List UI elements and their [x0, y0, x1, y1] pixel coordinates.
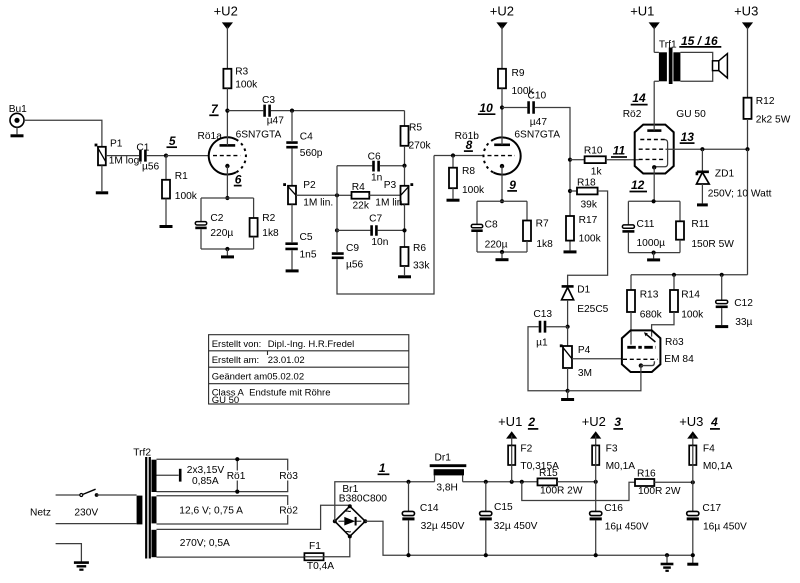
wire screen pin 13	[666, 148, 748, 150]
svg-text:E25C5: E25C5	[577, 304, 608, 315]
capacitor C2	[195, 198, 233, 249]
capacitor C16	[590, 503, 649, 555]
svg-text:100k: 100k	[235, 80, 258, 91]
cathode network rail U2 top	[628, 200, 680, 202]
svg-text:680k: 680k	[640, 310, 663, 321]
wire R3 to node 7	[226, 88, 228, 110]
pin 13 label	[680, 130, 695, 144]
mains switch	[56, 489, 137, 497]
svg-text:15 / 16: 15 / 16	[681, 34, 718, 48]
title block	[209, 335, 409, 406]
wire Bu1 to P1	[24, 120, 102, 147]
svg-text:11: 11	[613, 144, 626, 158]
svg-text:8: 8	[466, 138, 473, 152]
svg-text:C10: C10	[528, 90, 547, 101]
wire C4 to P2	[291, 148, 293, 185]
svg-text:µ47: µ47	[530, 117, 548, 128]
svg-text:Rö2: Rö2	[623, 109, 642, 120]
node R8 tap	[451, 153, 455, 157]
svg-text:33k: 33k	[413, 261, 430, 272]
diode D1	[562, 284, 609, 326]
potentiometer P4	[560, 327, 622, 391]
node C15 top	[484, 480, 488, 484]
svg-text:GU 50: GU 50	[212, 395, 239, 406]
capacitor C3	[262, 95, 284, 127]
wire F2 to rail	[511, 465, 513, 482]
svg-text:M0,1A: M0,1A	[703, 461, 733, 472]
transformer Trf2 core	[133, 448, 151, 559]
capacitor C7	[337, 214, 405, 248]
svg-text:13: 13	[681, 130, 695, 144]
capacitor C4	[286, 111, 322, 159]
svg-text:+U2: +U2	[214, 4, 238, 19]
svg-text:Trf1: Trf1	[659, 40, 677, 51]
svg-text:220µ: 220µ	[210, 228, 233, 239]
wire cathode box bottom rail (U1b)	[477, 251, 527, 253]
resistor R6	[401, 243, 431, 272]
svg-text:33µ: 33µ	[735, 317, 752, 328]
node 13 right	[745, 147, 749, 151]
svg-text:3M: 3M	[578, 368, 592, 379]
ground (ZD1)	[697, 203, 708, 206]
svg-text:T0,4A: T0,4A	[307, 561, 334, 572]
svg-text:32µ 450V: 32µ 450V	[494, 521, 538, 532]
svg-text:C3: C3	[262, 95, 275, 106]
EM84 supply rail	[631, 274, 748, 276]
ground (C12)	[715, 325, 728, 328]
node R18 tap	[568, 189, 572, 193]
svg-text:R17: R17	[579, 215, 598, 226]
svg-text:100k: 100k	[175, 191, 198, 202]
wire cathode pin 12	[653, 167, 655, 201]
wire plate pin 14	[653, 81, 655, 130]
svg-text:R11: R11	[691, 219, 709, 230]
node P2/C6 junction	[335, 193, 339, 197]
svg-text:ZD1: ZD1	[715, 169, 735, 180]
resistor R17	[566, 215, 602, 245]
node pin 12 cathode	[652, 199, 656, 203]
ground (R1)	[160, 199, 173, 227]
transformer Trf1	[654, 40, 680, 84]
capacitor C15	[480, 482, 538, 555]
wire cathode U1b down	[501, 166, 503, 201]
earth ground (mains)	[56, 544, 89, 570]
bridge rectifier Br1 (B380C800)	[333, 484, 387, 538]
node C7 left junction	[335, 228, 339, 232]
bypass wire to R16	[522, 482, 635, 501]
wire P2 bottom to C5	[291, 204, 293, 242]
power +U3 (bottom)	[679, 414, 720, 446]
svg-text:C15: C15	[494, 502, 513, 513]
svg-text:Rö1a: Rö1a	[198, 131, 223, 142]
capacitor C11	[622, 201, 665, 252]
svg-text:+U3: +U3	[734, 4, 758, 19]
Trf2 heater winding 2x3,15V	[152, 460, 157, 492]
node R10 tap	[568, 158, 572, 162]
pin 7 label	[209, 102, 219, 116]
resistor R7	[523, 201, 553, 252]
ground (C11/R11)	[647, 253, 660, 260]
wire node 10 to C10	[502, 107, 527, 109]
node cathode U1a	[225, 196, 229, 200]
capacitor C9	[332, 243, 364, 271]
svg-text:C11: C11	[637, 219, 655, 230]
resistor R1	[162, 156, 198, 202]
node C17 rail end	[691, 553, 695, 557]
node R16 feed	[520, 480, 524, 484]
pentode U2 (Roe2 GU 50)	[623, 109, 706, 173]
svg-text:2: 2	[527, 415, 535, 429]
svg-text:2k2 5W: 2k2 5W	[756, 114, 791, 125]
node 7	[225, 109, 229, 113]
svg-text:1M log.: 1M log.	[109, 155, 142, 166]
resistor R4	[337, 182, 401, 212]
label Netz 230V	[30, 507, 98, 518]
wire F1 to bridge	[324, 536, 350, 556]
ground (P4)	[561, 391, 574, 400]
wire EM84 cathode to ground rail	[568, 366, 641, 391]
wire node 7 to C3	[227, 110, 263, 112]
wire C10 to R10/R17 branch	[535, 108, 570, 251]
heater bus 12,6V	[157, 496, 299, 524]
capacitor C8	[471, 201, 507, 252]
wire bridge minus to rail node 1	[335, 482, 435, 521]
wire plate to node 7	[226, 111, 228, 146]
fuse F3	[592, 443, 635, 472]
power +U1 (top)	[630, 4, 660, 53]
svg-text:R18: R18	[577, 177, 596, 188]
resistor R2	[250, 198, 279, 249]
svg-text:2x3,15V: 2x3,15V	[187, 465, 225, 476]
node ZD1 tap	[700, 147, 704, 151]
svg-text:~: ~	[345, 507, 351, 518]
capacitor C14	[402, 482, 464, 555]
svg-text:16µ 450V: 16µ 450V	[703, 521, 747, 532]
power +U2 (bottom)	[582, 414, 623, 446]
wire feedback to grid of U1b	[434, 155, 483, 157]
capacitor C6	[337, 152, 405, 184]
svg-text:P1: P1	[110, 139, 123, 150]
svg-text:C16: C16	[604, 503, 623, 514]
svg-text:10: 10	[479, 101, 493, 115]
svg-text:C7: C7	[369, 214, 382, 225]
node C7 right junction	[402, 228, 406, 232]
svg-text:B380C800: B380C800	[339, 493, 387, 504]
svg-text:0,85A: 0,85A	[192, 476, 219, 487]
heater tap Roe1	[226, 457, 246, 494]
svg-text:Erstellt von:: Erstellt von:	[212, 339, 262, 350]
svg-text:220µ: 220µ	[485, 240, 508, 251]
potentiometer P2	[283, 180, 333, 209]
svg-text:R12: R12	[756, 96, 775, 107]
svg-text:5: 5	[169, 134, 176, 148]
svg-text:Erstellt am:: Erstellt am:	[212, 355, 260, 366]
svg-text:µ56: µ56	[142, 162, 160, 173]
resistor R14	[652, 275, 705, 337]
node C4 tap	[290, 109, 294, 113]
capacitor C12	[716, 275, 754, 328]
svg-text:560p: 560p	[300, 148, 323, 159]
wire C6 branch vertical	[336, 166, 338, 253]
node 5	[164, 134, 177, 158]
svg-text:Dipl.-Ing. H.R.Fredel: Dipl.-Ing. H.R.Fredel	[268, 339, 355, 350]
ground (R17)	[564, 250, 577, 253]
wire C9 to bottom rail	[337, 156, 434, 295]
wire plate U1b to node 10	[501, 108, 503, 145]
node C14 top	[406, 480, 410, 484]
input jack Bu1	[9, 104, 27, 127]
svg-text:14: 14	[632, 91, 646, 105]
terminals 15/16 label	[679, 34, 721, 48]
node cathode U1b	[500, 199, 504, 203]
svg-text:EM 84: EM 84	[664, 354, 694, 365]
wire C1 to node 5	[147, 155, 166, 157]
power +U2 (middle)	[490, 4, 514, 69]
pin 12 label	[630, 178, 648, 192]
ground (C5)	[286, 250, 299, 271]
node C14 bottom	[406, 553, 410, 557]
resistor R11	[676, 201, 734, 252]
triode U1a (Roe1a 6SN7GTA)	[198, 130, 282, 175]
svg-text:P4: P4	[578, 345, 591, 356]
svg-text:3,8H: 3,8H	[436, 482, 458, 493]
svg-text:C8: C8	[485, 219, 498, 230]
ground (R6)	[398, 266, 411, 277]
svg-text:4: 4	[710, 415, 718, 429]
svg-text:P3: P3	[384, 180, 397, 191]
svg-text:R16: R16	[637, 468, 656, 479]
capacitor C10	[528, 90, 548, 128]
node P4 ground	[566, 389, 570, 393]
svg-text:Rö1: Rö1	[227, 471, 246, 482]
rail choke to R15	[463, 481, 538, 483]
choke Dr1	[430, 452, 467, 493]
node D1/C13/P4	[566, 325, 570, 329]
svg-text:R9: R9	[512, 68, 525, 79]
svg-text:Bu1: Bu1	[9, 104, 27, 115]
svg-text:10n: 10n	[371, 237, 388, 248]
ground (C2/R2)	[221, 249, 234, 257]
triode U1b (Roe1b 6SN7GTA)	[455, 130, 561, 175]
capacitor C5	[285, 232, 316, 260]
svg-text:Rö3: Rö3	[279, 471, 298, 482]
node 1 label	[378, 461, 390, 475]
svg-text:P2: P2	[303, 180, 316, 191]
svg-text:+U2: +U2	[582, 414, 606, 429]
Trf2 winding 270V	[152, 530, 157, 557]
heater end Roe3	[278, 471, 298, 483]
wire bridge plus to bottom rail	[365, 521, 693, 555]
wire 270V bottom to F1	[157, 556, 305, 558]
svg-text:100R 2W: 100R 2W	[540, 485, 583, 496]
svg-text:R15: R15	[539, 468, 558, 479]
svg-text:32µ 450V: 32µ 450V	[421, 521, 465, 532]
svg-text:1k8: 1k8	[262, 228, 279, 239]
svg-text:F3: F3	[606, 443, 618, 454]
speaker	[680, 52, 727, 81]
node C15 bottom	[484, 553, 488, 557]
svg-text:µ47: µ47	[267, 115, 285, 126]
node R14 tap	[672, 273, 676, 277]
pin 11 label	[611, 144, 627, 158]
svg-text:270V; 0,5A: 270V; 0,5A	[180, 538, 230, 549]
svg-text:µ56: µ56	[346, 260, 364, 271]
capacitor C13	[528, 309, 568, 391]
wire C3 to R5	[271, 110, 405, 112]
svg-text:R3: R3	[235, 66, 248, 77]
wire P3 bottom to R6	[404, 204, 406, 247]
wire cathode box top rail (U1b)	[477, 200, 527, 202]
svg-text:9: 9	[509, 178, 516, 192]
svg-text:12,6 V; 0,75 A: 12,6 V; 0,75 A	[179, 506, 243, 517]
capacitor C1	[136, 142, 159, 172]
wire P1 wiper to C1	[106, 155, 139, 157]
wire node 5 to tube grid	[166, 155, 209, 157]
svg-text:1k: 1k	[591, 167, 603, 178]
svg-text:R4: R4	[352, 182, 365, 193]
svg-text:R6: R6	[413, 243, 426, 254]
svg-text:12: 12	[631, 178, 645, 192]
svg-text:22k: 22k	[353, 201, 370, 212]
svg-text:100k: 100k	[462, 185, 485, 196]
pin 6 label	[234, 173, 242, 187]
pin 9 label	[507, 178, 517, 192]
cathode network rail U2 bottom	[628, 252, 680, 254]
svg-text:M0,1A: M0,1A	[606, 461, 636, 472]
svg-text:C6: C6	[368, 152, 381, 163]
wire cathode down	[226, 166, 228, 198]
svg-text:Trf2: Trf2	[133, 448, 151, 459]
wire P2 wiper to R4 node	[296, 194, 337, 196]
ground (Bu1)	[11, 127, 24, 136]
svg-text:C14: C14	[420, 503, 439, 514]
ground (R8)	[447, 188, 460, 200]
capacitor C17	[687, 503, 747, 563]
svg-text:Rö2: Rö2	[279, 506, 298, 517]
wire cathode box top rail (U1a)	[201, 197, 254, 199]
zener diode ZD1	[697, 149, 772, 203]
svg-text:Netz: Netz	[30, 507, 51, 518]
svg-text:R14: R14	[681, 290, 700, 301]
svg-text:Dr1: Dr1	[435, 452, 452, 463]
resistor R3	[223, 66, 258, 90]
svg-text:100k: 100k	[681, 310, 704, 321]
svg-text:R1: R1	[175, 171, 188, 182]
svg-text:C12: C12	[734, 298, 753, 309]
svg-text:Geändert am05.02.02: Geändert am05.02.02	[212, 372, 304, 383]
svg-text:100R 2W: 100R 2W	[638, 486, 681, 497]
resistor R9	[498, 68, 534, 97]
svg-text:+U3: +U3	[679, 414, 703, 429]
potentiometer P1	[95, 139, 143, 167]
Trf2 winding 12,6V	[152, 496, 157, 523]
pin 14 label	[631, 91, 648, 105]
svg-text:C17: C17	[702, 503, 721, 514]
resistor R15	[538, 468, 596, 496]
svg-text:150R 5W: 150R 5W	[691, 239, 734, 250]
earth ground (bottom rail)	[661, 553, 674, 571]
svg-text:250V; 10 Watt: 250V; 10 Watt	[708, 189, 772, 200]
svg-text:1M lin.: 1M lin.	[303, 197, 333, 208]
pin 8 label	[464, 138, 473, 152]
svg-text:23.01.02: 23.01.02	[268, 355, 305, 366]
svg-text:3: 3	[614, 415, 621, 429]
svg-text:R8: R8	[462, 166, 475, 177]
svg-text:1k8: 1k8	[536, 239, 553, 250]
svg-text:C1: C1	[136, 142, 149, 153]
svg-text:C5: C5	[300, 232, 313, 243]
svg-text:C4: C4	[300, 132, 313, 143]
svg-text:F1: F1	[309, 541, 321, 552]
node F3	[594, 480, 598, 484]
wire R12 to node 13	[747, 119, 749, 149]
svg-text:1: 1	[379, 461, 386, 475]
resistor R12	[744, 96, 791, 125]
ground (P1)	[96, 165, 108, 193]
node C16 bottom	[594, 553, 598, 557]
fuse F1	[304, 541, 334, 572]
svg-text:+U1: +U1	[498, 414, 522, 429]
svg-text:C13: C13	[533, 309, 552, 320]
wire F4 to C17	[692, 465, 694, 511]
fuse F4	[689, 443, 732, 472]
svg-text:270k: 270k	[409, 141, 432, 152]
svg-text:6SN7GTA: 6SN7GTA	[514, 130, 560, 141]
svg-text:1n5: 1n5	[300, 249, 317, 260]
svg-text:Rö3: Rö3	[665, 337, 684, 348]
resistor R10	[570, 146, 639, 178]
node 10	[500, 105, 504, 109]
Trf2 primary winding 230V	[137, 496, 143, 525]
node C12 tap	[720, 273, 724, 277]
svg-text:GU 50: GU 50	[676, 109, 706, 120]
svg-text:R13: R13	[640, 290, 659, 301]
svg-text:D1: D1	[577, 284, 590, 295]
node F4	[691, 480, 695, 484]
ground (C8/R7)	[496, 252, 509, 260]
heater bus 2x3,15V	[157, 459, 288, 491]
resistor R13	[627, 275, 663, 345]
svg-text:R7: R7	[536, 219, 549, 230]
svg-text:µ1: µ1	[536, 338, 548, 349]
wire F3 to C16	[595, 465, 597, 511]
potentiometer P3	[375, 166, 413, 209]
svg-text:+U1: +U1	[630, 4, 654, 19]
power +U1 (bottom)	[498, 414, 538, 446]
svg-text:1n: 1n	[371, 173, 382, 184]
svg-text:230V: 230V	[74, 507, 98, 518]
wire cathode box bottom rail (U1a)	[201, 248, 254, 250]
node cathode network bottom	[652, 251, 656, 255]
svg-text:R2: R2	[262, 213, 275, 224]
svg-text:6SN7GTA: 6SN7GTA	[236, 130, 282, 141]
power +U2 (left)	[214, 4, 238, 69]
svg-text:16µ 450V: 16µ 450V	[605, 521, 649, 532]
wire +U3 rail down to EM84 rail	[747, 149, 749, 275]
magic eye U3 (Roe3 EM 84)	[622, 330, 694, 372]
svg-text:6: 6	[235, 173, 242, 187]
node R5/C6/P3	[402, 164, 406, 168]
svg-text:1M lin.: 1M lin.	[375, 197, 405, 208]
svg-text:39k: 39k	[581, 200, 598, 211]
svg-text:+U2: +U2	[490, 4, 514, 19]
node F2	[510, 480, 514, 484]
svg-text:F4: F4	[703, 443, 715, 454]
resistor R16	[635, 468, 693, 496]
node cathode box bottom (U1b)	[500, 250, 504, 254]
pin 10 label	[478, 101, 496, 115]
wire mains bottom	[56, 523, 137, 525]
